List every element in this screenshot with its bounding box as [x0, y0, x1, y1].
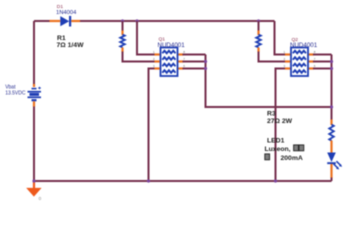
pin numbers Q2: [284, 50, 316, 68]
label D1: [57, 4, 64, 10]
pin numbers Q1: [153, 50, 185, 68]
resistor R2 lead bottom: [257, 48, 259, 53]
node junction right bus pin7: [330, 60, 333, 63]
node junction bottom rail Q2: [274, 179, 277, 182]
svg-text:NUD4001: NUD4001: [158, 42, 186, 49]
svg-text:1N4004: 1N4004: [56, 10, 77, 16]
label 0: [39, 196, 42, 201]
node junction bottom rail Q1: [147, 179, 150, 182]
resistor R2: [256, 35, 261, 48]
LED LED1: [327, 153, 342, 170]
svg-text:6: 6: [314, 64, 316, 68]
battery V1 lead bottom: [33, 101, 35, 106]
wire top rail main segment: [80, 20, 275, 22]
wire Q1 right pins to bus: [183, 55, 206, 69]
resistor R3 lead mid: [330, 141, 332, 153]
diode D1 lead right: [71, 20, 80, 22]
wire right column bottom corner: [331, 178, 333, 182]
svg-text:7Ω 1/4W: 7Ω 1/4W: [57, 42, 85, 49]
wire Q2 right pins to bus: [313, 55, 332, 69]
wire left branch lower: [33, 107, 35, 182]
wire top rail left segment: [34, 20, 50, 22]
diode D1: [60, 16, 71, 27]
wire Q2 pin3 to bottom rail: [276, 69, 287, 182]
value NUD4001 Q1: [158, 42, 186, 49]
svg-text:27Ω 2W: 27Ω 2W: [267, 118, 293, 125]
svg-text:NUD4001: NUD4001: [290, 42, 318, 49]
svg-text:7: 7: [314, 57, 316, 61]
op-amp U2 pins left stubs: [285, 55, 291, 69]
label Q2: [292, 37, 299, 43]
label LED1 text block: [265, 138, 304, 162]
value 1N4004: [56, 10, 77, 16]
svg-text:13.5VDC: 13.5VDC: [5, 91, 26, 97]
wire Q1 output bus: [206, 55, 332, 108]
svg-text:Luxeon,: Luxeon,: [265, 146, 291, 153]
op-amp U2 pins right stubs: [308, 55, 314, 69]
svg-text:LED1: LED1: [267, 138, 285, 145]
node junction rail drop B: [135, 19, 138, 22]
svg-text:0: 0: [39, 196, 42, 201]
battery V1 lead top: [33, 84, 35, 87]
transistor Q1 body: [161, 48, 178, 77]
node junction bus pin7: [204, 60, 207, 63]
node junction R1 drop: [121, 19, 124, 22]
resistor R1 lead bottom: [121, 48, 123, 53]
wire R1 to Q1 pin2: [123, 52, 156, 62]
label Vbat: [5, 84, 16, 90]
transistor Q2 body: [291, 48, 308, 77]
svg-text:Vbat: Vbat: [5, 84, 16, 90]
LED LED1 lead bottom: [330, 164, 332, 178]
label R1 value text: [57, 35, 85, 49]
resistor R2 lead top: [257, 31, 259, 36]
diode D1 lead left: [50, 20, 61, 22]
wire R2 to Q2 pin2: [259, 52, 287, 62]
svg-text:8: 8: [183, 50, 185, 54]
wire rail to Q1 pin1: [137, 21, 156, 55]
wire R1 drop upper: [122, 21, 124, 31]
value NUD4001 Q2: [290, 42, 318, 49]
node junction bottom-left: [32, 179, 35, 182]
battery V1: [28, 87, 42, 101]
svg-text:6: 6: [183, 64, 185, 68]
resistor R3 lead top: [330, 120, 332, 126]
node junction right bus feed: [330, 105, 333, 108]
wire right column upper: [331, 55, 333, 121]
wire rail corner to Q2 pin1: [275, 21, 287, 55]
wire bottom rail: [34, 180, 332, 182]
ground: [26, 181, 41, 197]
resistor R1 lead top: [121, 31, 123, 36]
wire Q1 pin3 to bottom rail: [149, 69, 156, 182]
svg-text:R3: R3: [267, 110, 276, 117]
wire left branch upper: [33, 21, 35, 84]
op-amp U1 pins right stubs: [178, 55, 184, 69]
label R3 value text: [267, 110, 293, 125]
svg-text:200mA: 200mA: [281, 155, 303, 162]
svg-text:7: 7: [183, 57, 185, 61]
node junction right bus pin6: [330, 67, 333, 70]
wire R2 drop upper: [258, 21, 260, 31]
label Q1: [159, 36, 166, 42]
resistor R1: [120, 35, 125, 48]
svg-text:8: 8: [314, 50, 316, 54]
node junction bus pin6: [204, 67, 207, 70]
value 13.5VDC: [5, 91, 26, 97]
resistor R3: [329, 125, 334, 141]
node junction rail R2 drop: [257, 19, 260, 22]
op-amp U1 pins left stubs: [155, 55, 161, 69]
svg-text:R1: R1: [57, 35, 66, 42]
